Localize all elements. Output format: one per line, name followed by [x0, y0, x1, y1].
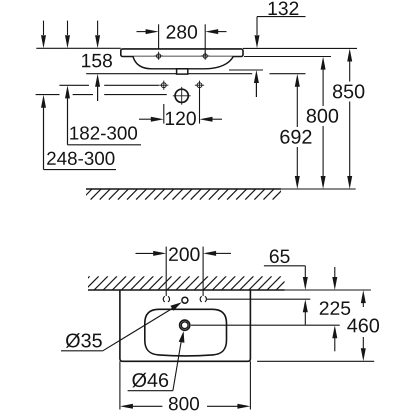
dim 120: [139, 89, 222, 124]
top arrow dim 248-300: [41, 21, 46, 49]
wall hatching: [76, 276, 290, 290]
wire rim top plane right: [243, 47, 357, 49]
wire front reference: [257, 360, 374, 362]
label 132: [269, 2, 299, 16]
top arrow dim 182-300: [65, 21, 70, 49]
label O46 leader: [128, 331, 185, 391]
label Ø46: [132, 373, 168, 388]
dim 158 lower arrow: [95, 74, 100, 101]
wire 158-level line: [86, 73, 305, 75]
axis line L2: [36, 94, 167, 96]
label 200: [169, 247, 199, 261]
wire holes axis right: [207, 298, 310, 300]
label Ø35: [66, 333, 102, 348]
label 460: [347, 318, 379, 332]
label 65: [270, 249, 290, 263]
label 800: [169, 397, 199, 410]
floor line: [86, 188, 356, 190]
label 225: [320, 301, 350, 315]
floor hatching: [82, 189, 293, 200]
label 158: [82, 54, 112, 68]
wire tap axis right: [191, 324, 340, 326]
label 800: [307, 109, 338, 123]
wire 800-level right: [244, 56, 331, 58]
wire rim top plane left: [36, 47, 121, 49]
tap hole O46 plan: [180, 320, 190, 330]
bowl outline plan: [145, 309, 227, 356]
wall fixing hole left dashed: [163, 296, 169, 302]
label 850: [333, 84, 364, 98]
label 280: [167, 25, 197, 39]
label 692: [280, 130, 311, 144]
wire 132-level line: [229, 69, 263, 71]
dim 132 leader: [254, 17, 306, 97]
label 248-300: [47, 152, 114, 165]
bolt circle right on rim: [201, 52, 210, 60]
basin rim front view: [121, 49, 243, 57]
fixing hole circle right: [195, 81, 204, 90]
drain bump: [177, 69, 188, 74]
bowl underside curve: [133, 57, 233, 69]
wall fixing hole right dashed: [200, 296, 206, 302]
label 120: [166, 112, 196, 126]
label O35 leader: [61, 302, 182, 351]
dim 248-300: [41, 95, 116, 170]
dim 692 vertical: [295, 74, 300, 189]
dim 225: [332, 267, 337, 351]
dim 850 vertical: [347, 49, 352, 190]
fixing hole circle left: [159, 81, 168, 90]
wall line: [88, 289, 371, 291]
hole O35 plan: [182, 297, 188, 303]
dim 460: [361, 290, 366, 361]
top arrow dim 158: [95, 21, 100, 49]
tap hole circle front view: [173, 87, 191, 105]
label 182-300: [70, 126, 137, 139]
axis line L1: [59, 84, 158, 86]
bolt circle left on rim: [154, 52, 163, 60]
dim 280: [137, 24, 227, 56]
dim 800 vertical: [321, 57, 326, 189]
dim 800 bottom: [120, 361, 251, 409]
dim 65: [264, 266, 308, 325]
dim 182-300: [65, 85, 141, 144]
basin outline plan: [120, 290, 251, 361]
dim 200: [136, 247, 232, 296]
